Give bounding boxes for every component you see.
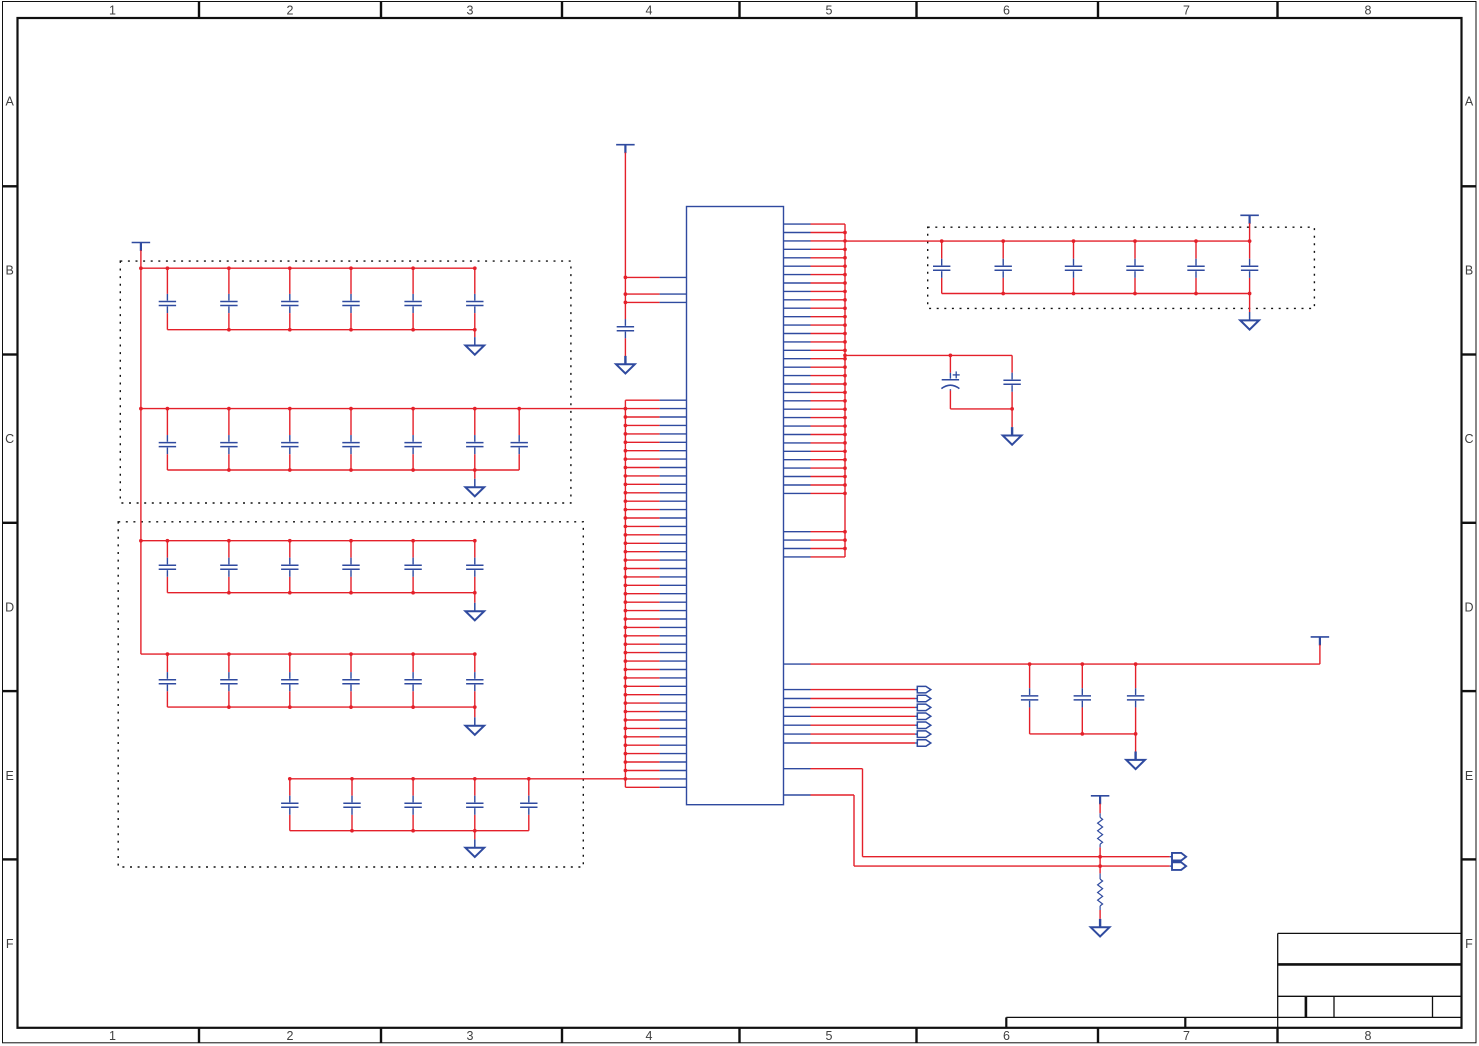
svg-text:3: 3 (467, 4, 474, 18)
capacitor C31 (159, 541, 176, 593)
svg-text:E: E (6, 769, 14, 783)
capacitor C45 (1187, 241, 1204, 293)
U1 config pins to ports (7) (784, 690, 916, 743)
wire cap row 5 bottom rail (290, 830, 529, 832)
capacitor C46 (466, 654, 483, 707)
ground row 4 (465, 707, 484, 735)
capacitor C21 (159, 409, 176, 470)
ground top center (616, 356, 635, 374)
port flag VREF1 (1170, 853, 1186, 861)
capacitor C31 top center (617, 319, 634, 338)
junctions cap row 4 bottom rail (227, 705, 477, 709)
svg-text:8: 8 (1365, 1029, 1372, 1043)
ground divider (1091, 919, 1110, 937)
svg-text:1: 1 (109, 1029, 116, 1043)
capacitor C25 (404, 409, 421, 470)
column labels top (109, 4, 1372, 18)
capacitor C43 (281, 654, 298, 707)
capacitor C13 (281, 268, 298, 330)
capacitor C46 (1241, 241, 1258, 293)
svg-text:C: C (5, 432, 14, 446)
wire cap row 3 bottom rail (167, 592, 474, 594)
port flag P7 (915, 740, 931, 747)
dotted group box left-bottom (118, 522, 583, 867)
junctions cap row 1 bottom rail (227, 328, 477, 332)
capacitor C63 (1127, 664, 1144, 734)
wire cap row 4 top rail (141, 653, 475, 655)
svg-text:4: 4 (646, 1029, 653, 1043)
row reference ticks left (3, 186, 18, 859)
junction at C51 top (949, 354, 953, 358)
junctions cap row 1 top rail (166, 266, 477, 270)
capacitor C62 (1074, 664, 1091, 734)
wire 3-cap bottom rail (1030, 733, 1136, 735)
svg-text:F: F (6, 937, 14, 951)
capacitor C61 (1021, 664, 1038, 734)
capacitor C33 (281, 541, 298, 593)
U1 right pin stubs (37) (784, 224, 846, 557)
junctions cap row 2 top rail (166, 407, 522, 411)
wire between nodes (1099, 857, 1101, 866)
svg-text:D: D (1464, 601, 1473, 615)
column reference ticks bottom (199, 1028, 1278, 1043)
svg-text:D: D (5, 601, 14, 615)
svg-text:7: 7 (1183, 1029, 1190, 1043)
port flag VREF2 (1170, 862, 1186, 870)
U1 left pin stubs (47) (625, 400, 686, 787)
ground row 1 (465, 330, 484, 355)
junctions cap row 4 top rail (166, 652, 477, 656)
dotted group box left-top (120, 261, 571, 503)
wire power stub right (1319, 645, 1321, 664)
capacitor C14 (342, 268, 359, 330)
U1 pin to node VREF2 (784, 795, 1170, 866)
capacitor C42 (995, 241, 1012, 293)
junctions on left pin bus (624, 407, 628, 781)
capacitor C45 (404, 654, 421, 707)
capacitor C15 (404, 268, 421, 330)
power symbol top right (1240, 215, 1259, 224)
capacitor C23 (281, 409, 298, 470)
wire right pin bus vertical (844, 224, 846, 557)
capacitor C44 (342, 654, 359, 707)
junction cap pair bottom (1010, 407, 1014, 411)
capacitor C51 (281, 779, 298, 831)
junctions top-right bank bottom rail (1001, 292, 1251, 296)
capacitor C43 (1065, 241, 1082, 293)
ground row 5 (465, 831, 484, 857)
capacitor C41 (159, 654, 176, 707)
wire top-right bank top rail (845, 240, 1250, 242)
wire below C31 (624, 338, 626, 356)
capacitor C51 polarized (941, 355, 959, 409)
capacitor C16 (466, 268, 483, 330)
capacitor C55 (520, 779, 537, 831)
wire cap row 4 bottom rail (167, 706, 474, 708)
svg-text:8: 8 (1365, 4, 1372, 18)
ground row 2 (465, 470, 484, 496)
junctions cap row 3 bottom rail (227, 591, 477, 595)
wire cap row 1 top rail (141, 267, 475, 269)
U1 left pins upper group (3) (625, 277, 686, 302)
ground cap pair (1003, 409, 1022, 445)
wire power stub top right (1249, 223, 1251, 241)
svg-text:3: 3 (467, 1029, 474, 1043)
wire top-right bank bottom rail (942, 293, 1250, 295)
row labels right (1464, 95, 1473, 952)
svg-text:B: B (6, 264, 14, 278)
capacitor C52 (1003, 373, 1020, 409)
wire cap row 2 top rail (141, 408, 626, 410)
wire left pin bus vertical (624, 400, 626, 787)
junction VREF1 node (1098, 855, 1102, 859)
wire VCC to cap pair (845, 354, 1012, 356)
dotted group box top-right (928, 227, 1315, 308)
junctions cap row 5 bottom rail (350, 829, 477, 833)
junctions cap row 2 bottom rail (227, 468, 477, 472)
capacitor C26 (466, 409, 483, 470)
svg-text:E: E (1465, 769, 1473, 783)
wire cap row 2 bottom rail (167, 469, 519, 471)
svg-text:4: 4 (646, 4, 653, 18)
port flag P4 (915, 713, 931, 720)
junctions cap row 5 top rail (288, 777, 531, 781)
wire cap row 3 top rail (141, 540, 475, 542)
capacitor C11 (159, 268, 176, 330)
wire VDD left vertical (140, 250, 142, 654)
junction VREF2 node (1098, 864, 1102, 868)
column labels bottom (109, 1029, 1372, 1043)
wire cap row 5 top rail (290, 778, 626, 780)
ground top right (1240, 294, 1259, 330)
capacitor C41 (933, 241, 950, 293)
capacitor C42 (220, 654, 237, 707)
wire R2 to ground (1099, 910, 1101, 919)
capacitor C34 (342, 541, 359, 593)
capacitor C35 (404, 541, 421, 593)
wire divider top (1099, 804, 1101, 814)
title block (1006, 933, 1461, 1027)
svg-text:7: 7 (1183, 4, 1190, 18)
capacitor C24 (342, 409, 359, 470)
power symbol VDD left (132, 243, 151, 252)
capacitor C52 (343, 779, 360, 831)
wire VCCO long rail (811, 663, 1320, 665)
capacitor C53 (404, 779, 421, 831)
U1 right pin VCCO (784, 663, 811, 665)
svg-text:2: 2 (287, 4, 294, 18)
wire node to R2 (1099, 866, 1101, 873)
port flag P1 (915, 686, 931, 693)
power symbol right (1311, 637, 1330, 646)
capacitor C32 (220, 541, 237, 593)
wire top center vertical (624, 153, 626, 320)
svg-text:5: 5 (826, 4, 833, 18)
port flag P3 (915, 704, 931, 711)
ground 3-cap group (1126, 734, 1145, 769)
capacitor C54 (466, 779, 483, 831)
svg-text:2: 2 (287, 1029, 294, 1043)
svg-text:F: F (1465, 937, 1473, 951)
row labels left (5, 95, 14, 952)
power symbol top center (616, 145, 635, 154)
port flag P5 (915, 722, 931, 729)
svg-text:1: 1 (109, 4, 116, 18)
power symbol divider top (1091, 796, 1110, 805)
capacitor C12 (220, 268, 237, 330)
svg-text:B: B (1465, 264, 1473, 278)
junctions top center vertical (624, 276, 628, 305)
capacitor C22 (220, 409, 237, 470)
capacitor C27 (511, 409, 528, 470)
port flag P2 (915, 695, 931, 702)
svg-text:C: C (1464, 432, 1473, 446)
capacitor C36 (466, 541, 483, 593)
junctions on right pin bus (843, 231, 847, 551)
ground row 3 (465, 593, 484, 621)
svg-text:6: 6 (1003, 4, 1010, 18)
junctions top-right bank top rail (940, 239, 1252, 243)
wire cap row 1 bottom rail (167, 329, 474, 331)
svg-text:A: A (1465, 95, 1474, 109)
svg-text:A: A (6, 95, 15, 109)
wire down to C52 (1011, 355, 1013, 372)
wire R1 to node (1099, 847, 1101, 856)
svg-text:5: 5 (826, 1029, 833, 1043)
column reference ticks top (199, 2, 1278, 19)
resistor R2 (1098, 873, 1103, 910)
U1 pin to node VREF1 (784, 769, 1170, 857)
junctions cap row 3 top rail (166, 539, 477, 543)
row reference ticks right (1462, 186, 1476, 859)
resistor R1 (1098, 813, 1103, 847)
junctions VCCO rail (1028, 662, 1138, 666)
port flag P6 (915, 731, 931, 738)
svg-text:6: 6 (1003, 1029, 1010, 1043)
IC U1 (687, 207, 784, 805)
junctions 3-cap bottom rail (1080, 732, 1137, 736)
wire cap pair bottom rail (950, 408, 1012, 410)
capacitor C44 (1126, 241, 1143, 293)
junctions on VDD left vertical (139, 266, 143, 542)
